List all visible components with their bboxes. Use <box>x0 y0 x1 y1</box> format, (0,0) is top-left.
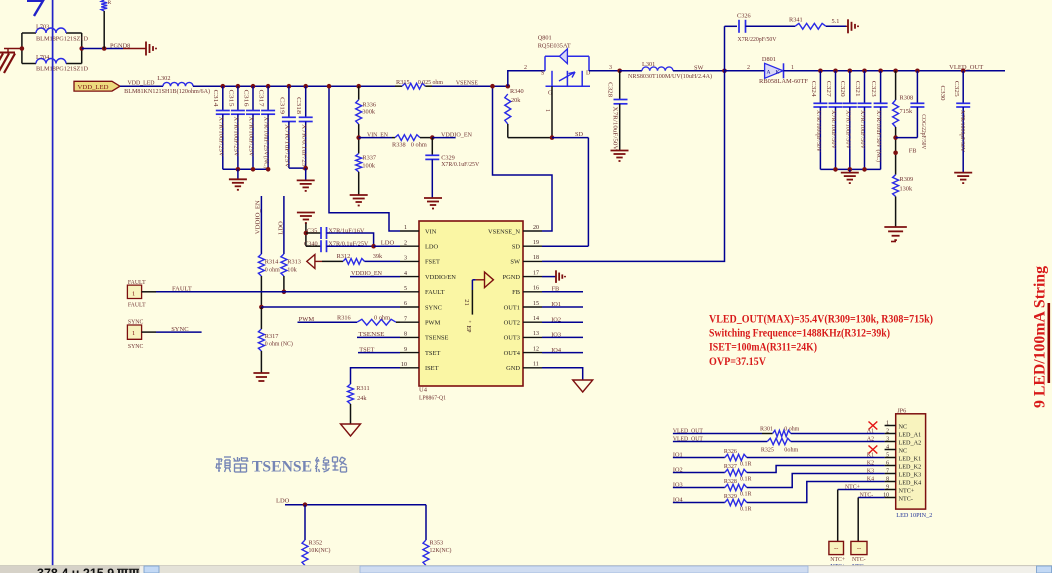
svg-text:3: 3 <box>404 256 407 262</box>
svg-text:BLM18PG121SZ1D: BLM18PG121SZ1D <box>36 65 88 72</box>
svg-text:OUT4: OUT4 <box>504 350 521 357</box>
svg-text:5: 5 <box>886 453 889 459</box>
svg-text:11: 11 <box>533 362 539 368</box>
svg-text:6: 6 <box>404 301 407 307</box>
svg-text:NTC-: NTC- <box>852 557 866 563</box>
svg-text:VDDIO_EN: VDDIO_EN <box>441 132 472 139</box>
svg-text:FAULT: FAULT <box>128 303 146 309</box>
svg-text:LED_K1: LED_K1 <box>899 455 922 462</box>
svg-text:OUT3: OUT3 <box>504 335 520 342</box>
svg-text:6: 6 <box>886 461 889 467</box>
svg-text:0.1R: 0.1R <box>740 476 752 482</box>
svg-text:300k: 300k <box>362 109 375 116</box>
svg-text:VDD_LED: VDD_LED <box>78 84 109 91</box>
svg-text:20k: 20k <box>511 97 521 104</box>
svg-text:TSENSE: TSENSE <box>425 335 449 342</box>
svg-text:R308: R308 <box>900 95 914 102</box>
svg-text:C324: C324 <box>810 81 817 98</box>
svg-text:20: 20 <box>533 225 539 231</box>
svg-text:C325: C325 <box>953 81 960 97</box>
svg-text:FB: FB <box>909 147 917 154</box>
svg-text:D801: D801 <box>762 56 776 63</box>
svg-text:9 LED/100mA String: 9 LED/100mA String <box>1032 266 1049 408</box>
svg-text:LP8867-Q1: LP8867-Q1 <box>419 395 446 402</box>
svg-text:FAULT: FAULT <box>128 280 146 286</box>
svg-text:R340: R340 <box>510 88 524 95</box>
svg-text:X7R/10uF/50V: X7R/10uF/50V <box>830 110 837 149</box>
svg-text:9: 9 <box>886 485 889 491</box>
svg-text:Q801: Q801 <box>538 35 552 42</box>
svg-text:C314: C314 <box>212 90 219 108</box>
svg-text:L703: L703 <box>36 24 49 31</box>
svg-text:R329: R329 <box>724 494 737 500</box>
svg-text:VSENSE: VSENSE <box>456 79 478 86</box>
svg-text:9: 9 <box>404 347 407 353</box>
svg-text:L302: L302 <box>157 75 170 82</box>
svg-text:2: 2 <box>747 65 750 71</box>
svg-text:C318: C318 <box>295 97 302 114</box>
svg-text:SYNC: SYNC <box>425 304 442 311</box>
svg-text:SYNC: SYNC <box>171 326 188 333</box>
svg-text:GND: GND <box>506 365 520 372</box>
svg-text:24k: 24k <box>357 395 367 402</box>
svg-text:LDO: LDO <box>381 240 395 247</box>
svg-text:RQ5E035AT: RQ5E035AT <box>538 42 571 49</box>
svg-text:NTC+: NTC+ <box>830 557 845 563</box>
svg-text:--: -- <box>857 545 861 552</box>
svg-text:R328: R328 <box>724 479 737 485</box>
svg-text:NC: NC <box>899 423 908 430</box>
svg-text:R337: R337 <box>362 155 376 162</box>
svg-text:130k: 130k <box>900 186 913 193</box>
svg-text:C317: C317 <box>258 90 265 108</box>
svg-text:LDO: LDO <box>425 244 439 251</box>
svg-text:X7R/0.1uF/25V: X7R/0.1uF/25V <box>441 161 479 168</box>
svg-text:715k: 715k <box>900 108 913 115</box>
svg-text:VSENSE_N: VSENSE_N <box>488 228 520 235</box>
svg-text:SD: SD <box>512 244 521 251</box>
svg-text:VLED_OUT(MAX)=35.4V(R309=130k,: VLED_OUT(MAX)=35.4V(R309=130k, R308=715k… <box>709 312 933 325</box>
svg-text:8: 8 <box>404 332 407 338</box>
svg-text:R: R <box>108 0 112 6</box>
svg-text:3: 3 <box>886 437 889 443</box>
svg-text:PWM: PWM <box>425 320 441 327</box>
svg-text:K: K <box>776 69 780 75</box>
svg-text:C35: C35 <box>307 227 318 234</box>
svg-text:FAULT: FAULT <box>425 289 445 296</box>
svg-text:R325: R325 <box>761 448 774 454</box>
svg-text:X7R/10uF/25V: X7R/10uF/25V <box>217 117 224 157</box>
svg-text:LED_K2: LED_K2 <box>899 463 922 470</box>
svg-text:R316: R316 <box>337 315 351 322</box>
svg-text:2: 2 <box>404 240 407 246</box>
svg-text:R309: R309 <box>900 176 914 183</box>
svg-text:SD: SD <box>575 131 584 138</box>
svg-text:5: 5 <box>404 286 407 292</box>
svg-text:TSET: TSET <box>425 350 440 357</box>
svg-text:--: -- <box>834 545 838 552</box>
svg-text:LED_A2: LED_A2 <box>899 439 922 446</box>
svg-text:JP6: JP6 <box>897 407 906 414</box>
svg-text:7: 7 <box>404 316 407 322</box>
svg-text:NTC-: NTC- <box>899 495 913 502</box>
svg-text:RB058LAM-60TF: RB058LAM-60TF <box>759 78 808 85</box>
svg-text:12K(NC): 12K(NC) <box>430 547 452 554</box>
svg-text:C321: C321 <box>854 81 861 97</box>
svg-text:1: 1 <box>132 330 135 337</box>
svg-text:L704: L704 <box>36 54 50 61</box>
svg-text:SW: SW <box>694 64 704 71</box>
svg-text:X7R/10uF/50V: X7R/10uF/50V <box>859 110 866 149</box>
svg-text:A: A <box>767 69 771 75</box>
svg-text:C330: C330 <box>939 86 946 101</box>
svg-text:PGND: PGND <box>503 274 521 281</box>
svg-text:10: 10 <box>401 362 407 368</box>
svg-text:10k: 10k <box>287 267 297 274</box>
svg-text:0 ohm: 0 ohm <box>411 141 427 148</box>
svg-text:0 ohm (NC): 0 ohm (NC) <box>265 340 293 347</box>
svg-text:Switching Frequence=1488KHz(R3: Switching Frequence=1488KHz(R312=39k) <box>709 327 890 340</box>
svg-text:LDO: LDO <box>276 498 290 505</box>
svg-text:BLM81KN121SH1B(120ohm/6A): BLM81KN121SH1B(120ohm/6A) <box>124 88 210 95</box>
svg-text:X7R/0.1uF/25V: X7R/0.1uF/25V <box>300 124 307 172</box>
svg-text:LED_A1: LED_A1 <box>899 431 922 438</box>
svg-text:1: 1 <box>791 65 794 71</box>
svg-text:SW: SW <box>510 259 521 266</box>
svg-text:X7R/10uF/25V: X7R/10uF/25V <box>233 117 240 157</box>
svg-text:LED_K4: LED_K4 <box>899 479 922 486</box>
svg-text:39k: 39k <box>373 253 383 260</box>
svg-text:R315: R315 <box>396 79 410 86</box>
svg-text:R327: R327 <box>724 464 737 470</box>
svg-text:R311: R311 <box>356 385 369 392</box>
svg-text:8: 8 <box>886 477 889 483</box>
svg-text:R352: R352 <box>309 540 323 547</box>
svg-text:R326: R326 <box>724 449 737 455</box>
svg-text:X7R/1000pF/50V: X7R/1000pF/50V <box>815 110 822 152</box>
svg-text:NTC+: NTC+ <box>899 487 915 494</box>
svg-text:1: 1 <box>404 225 407 231</box>
svg-text:VDDIO_EN: VDDIO_EN <box>254 200 261 234</box>
svg-text:18: 18 <box>533 255 539 261</box>
svg-text:21: 21 <box>463 299 470 306</box>
svg-text:SYNC: SYNC <box>128 344 144 350</box>
svg-text:X7R/1uF/16V: X7R/1uF/16V <box>328 227 364 234</box>
svg-text:16: 16 <box>533 286 539 292</box>
svg-text:17: 17 <box>533 270 539 276</box>
svg-text:EP: EP <box>465 326 471 334</box>
svg-text:0 ohm: 0 ohm <box>265 267 280 274</box>
svg-text:R312: R312 <box>337 253 351 260</box>
svg-text:VIN: VIN <box>425 228 437 235</box>
svg-text:U4: U4 <box>419 387 428 394</box>
svg-text:VLED_OUT: VLED_OUT <box>949 64 983 71</box>
svg-text:7: 7 <box>886 469 889 475</box>
svg-text:X7R/1uF/25V: X7R/1uF/25V <box>284 124 291 168</box>
svg-text:13: 13 <box>533 331 539 337</box>
svg-text:C327: C327 <box>825 81 832 98</box>
svg-text:2: 2 <box>886 429 889 435</box>
svg-text:X7R/10uF/25V(NC): X7R/10uF/25V(NC) <box>263 117 270 169</box>
svg-text:12: 12 <box>533 346 539 352</box>
svg-text:X7R/0.1uF/25V: X7R/0.1uF/25V <box>328 241 368 248</box>
svg-text:R353: R353 <box>430 540 444 547</box>
svg-text:378.4 u 215.9: 378.4 u 215.9 <box>37 567 114 573</box>
svg-text:100k: 100k <box>362 162 375 169</box>
svg-text:L301: L301 <box>642 61 655 68</box>
svg-text:NRS8030T100M/UV(10uH/2.4A): NRS8030T100M/UV(10uH/2.4A) <box>628 73 712 80</box>
svg-text:FAULT: FAULT <box>172 286 192 293</box>
svg-text:X7R/10uF/25V: X7R/10uF/25V <box>248 117 255 157</box>
svg-text:OVP=37.15V: OVP=37.15V <box>709 355 767 368</box>
svg-text:LED_K3: LED_K3 <box>899 471 922 478</box>
svg-text:C319: C319 <box>278 97 285 114</box>
svg-text:COG/22pF/50V: COG/22pF/50V <box>920 114 927 149</box>
svg-text:R336: R336 <box>362 102 376 109</box>
svg-text:C323: C323 <box>870 81 877 97</box>
svg-text:S: S <box>541 70 544 76</box>
svg-text:X7R/10uF/50V: X7R/10uF/50V <box>612 107 619 151</box>
svg-text:C328: C328 <box>607 82 614 97</box>
svg-text:R301: R301 <box>760 427 773 433</box>
svg-text:VDDIO/EN: VDDIO/EN <box>425 274 456 281</box>
svg-text:OUT2: OUT2 <box>504 320 520 327</box>
svg-text:1: 1 <box>544 109 550 112</box>
svg-text:ISET=100mA(R311=24K): ISET=100mA(R311=24K) <box>709 341 817 354</box>
svg-text:R341: R341 <box>789 16 803 23</box>
svg-text:R338: R338 <box>392 141 406 148</box>
svg-text:0 ohm: 0 ohm <box>784 427 799 433</box>
svg-text:R314: R314 <box>265 259 279 266</box>
svg-text:0.1R: 0.1R <box>740 461 752 467</box>
svg-text:ISET: ISET <box>425 365 439 372</box>
svg-text:0.1R: 0.1R <box>740 491 752 497</box>
svg-text:FB: FB <box>512 289 520 296</box>
svg-text:C320: C320 <box>839 81 846 97</box>
svg-text:VDD_LED: VDD_LED <box>128 79 155 86</box>
svg-text:OUT1: OUT1 <box>504 304 520 311</box>
svg-text:4: 4 <box>404 271 407 277</box>
svg-text:2: 2 <box>524 65 527 71</box>
svg-text:0ohm: 0ohm <box>784 448 798 454</box>
svg-text:NC: NC <box>899 447 908 454</box>
svg-text:1: 1 <box>886 421 889 427</box>
svg-text:C316: C316 <box>242 90 249 107</box>
svg-text:0.025 ohm: 0.025 ohm <box>418 79 443 86</box>
svg-text:X7R/1000pF/50V: X7R/1000pF/50V <box>959 110 966 152</box>
svg-text:10K(NC): 10K(NC) <box>309 547 331 554</box>
svg-text:5.1: 5.1 <box>832 18 840 25</box>
svg-text:C315: C315 <box>227 90 234 107</box>
svg-text:FSET: FSET <box>425 259 440 266</box>
svg-text:R313: R313 <box>287 259 301 266</box>
svg-text:SYNC: SYNC <box>128 319 144 325</box>
svg-text:19: 19 <box>533 240 539 246</box>
svg-text:X7R/10uF/50V: X7R/10uF/50V <box>844 110 851 149</box>
svg-text:C340: C340 <box>304 241 318 248</box>
svg-text:4: 4 <box>886 445 889 451</box>
svg-text:X7R/220pF/50V: X7R/220pF/50V <box>738 36 777 43</box>
svg-text:BLM18PG121SZ1D: BLM18PG121SZ1D <box>36 35 88 42</box>
svg-text:0 ohm: 0 ohm <box>374 315 390 322</box>
svg-text:TSENSE: TSENSE <box>252 459 312 476</box>
svg-text:C326: C326 <box>737 13 751 20</box>
svg-text:LED 10PIN_2: LED 10PIN_2 <box>896 512 932 519</box>
svg-text:X7R/10uF/50V (NC): X7R/10uF/50V (NC) <box>875 110 882 162</box>
svg-text:14: 14 <box>533 316 539 322</box>
svg-text:1: 1 <box>132 290 135 297</box>
svg-text:15: 15 <box>533 301 539 307</box>
svg-text:0.1R: 0.1R <box>740 506 752 512</box>
svg-text:R317: R317 <box>265 333 279 340</box>
